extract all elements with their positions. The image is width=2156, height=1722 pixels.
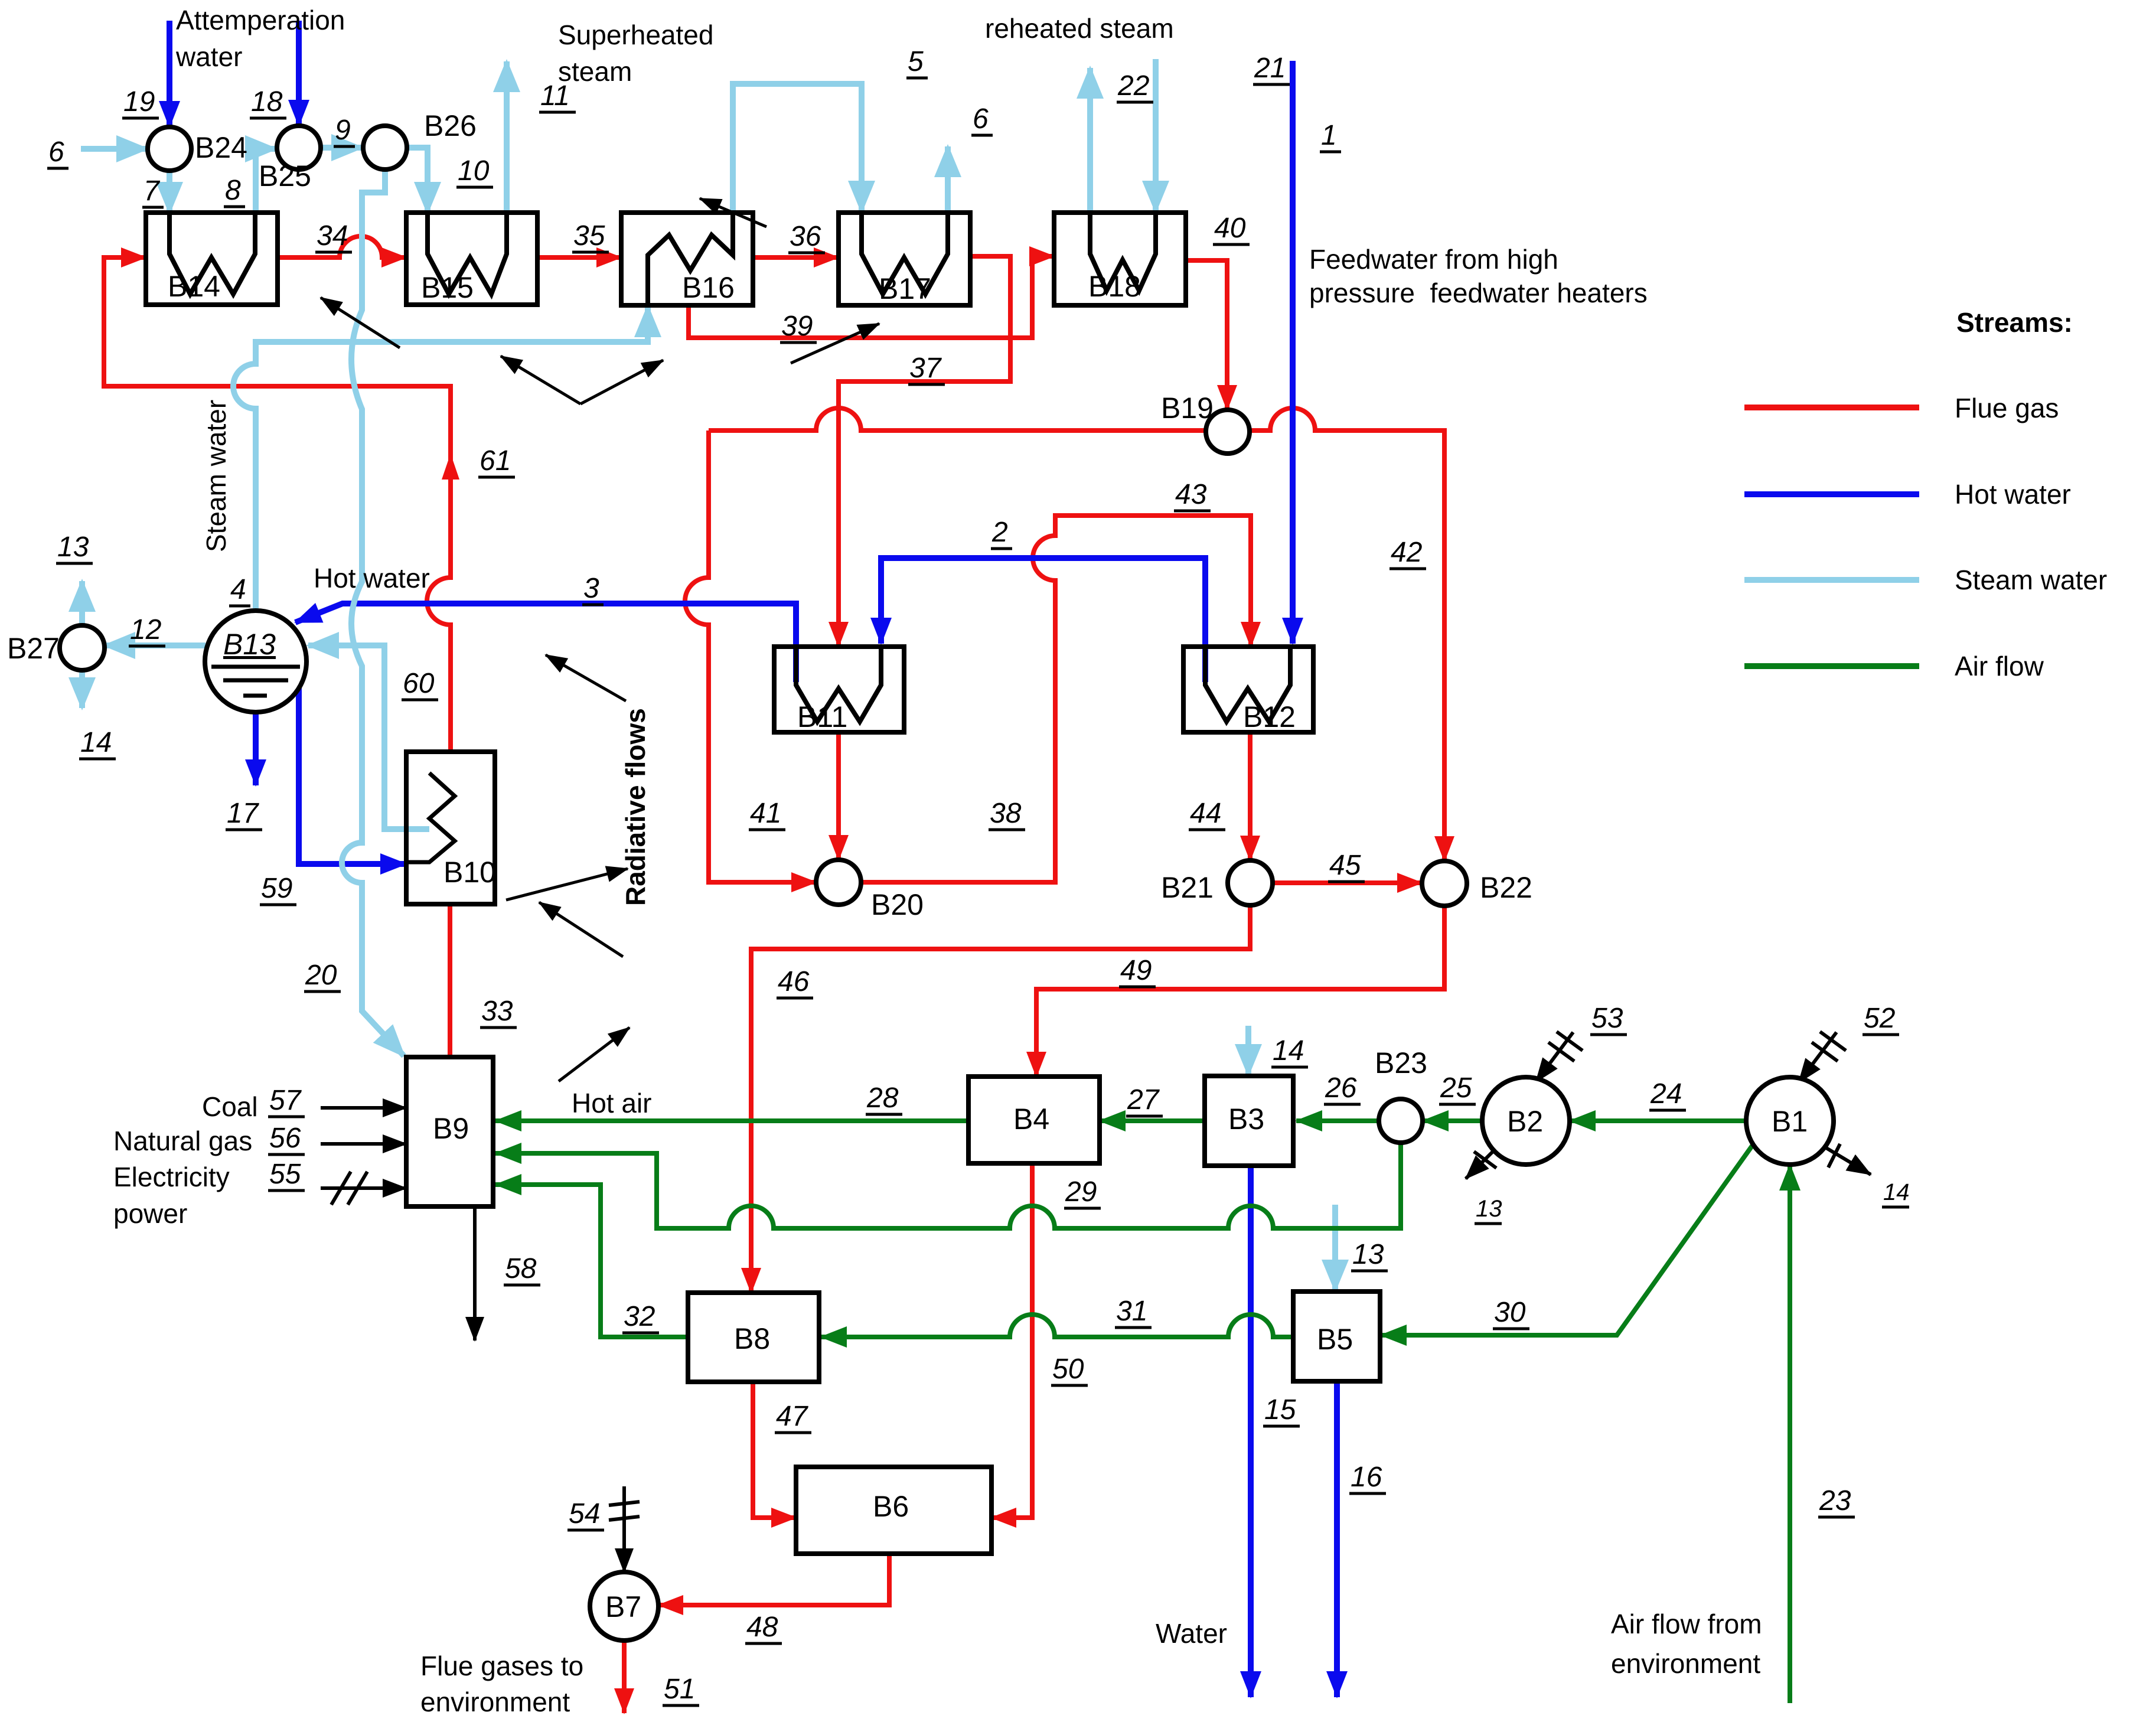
stream 50 B4 to B6 xyxy=(991,1163,1032,1518)
svg-text:6: 6 xyxy=(973,103,989,135)
B16 coil xyxy=(648,215,733,303)
svg-text:26: 26 xyxy=(1325,1072,1357,1104)
svg-text:14: 14 xyxy=(80,727,112,758)
stream 1 feedwater to B12 xyxy=(1290,61,1296,644)
svg-text:2: 2 xyxy=(991,517,1008,548)
stream 55 double slash xyxy=(331,1172,367,1205)
stream 52 tick marks xyxy=(1812,1032,1846,1061)
svg-text:10: 10 xyxy=(458,155,490,187)
heat exchanger B3 xyxy=(1205,1076,1293,1166)
svg-text:13: 13 xyxy=(1476,1196,1502,1222)
svg-text:50: 50 xyxy=(1052,1354,1084,1385)
stream 7 B24 to B14 xyxy=(167,171,172,213)
svg-text:25: 25 xyxy=(1440,1072,1472,1104)
svg-text:36: 36 xyxy=(790,221,821,252)
radiative arrow h xyxy=(700,198,766,227)
stream 54 tick marks xyxy=(609,1502,640,1520)
stream 58 B9 losses out xyxy=(473,1206,477,1341)
stream 31 B5 to B8 xyxy=(821,1315,1293,1337)
wire B19 row xyxy=(709,408,1228,430)
stream 6 B17 steam out xyxy=(945,146,951,213)
svg-text:60: 60 xyxy=(403,668,435,699)
svg-text:B24: B24 xyxy=(195,131,247,164)
svg-text:18: 18 xyxy=(251,86,283,118)
stream 28 B4 to B9 hot air xyxy=(495,1118,968,1123)
stream 43 B20 to B12 xyxy=(861,516,1251,882)
svg-text:40: 40 xyxy=(1214,213,1246,244)
node B23 xyxy=(1379,1099,1423,1143)
svg-text:B12: B12 xyxy=(1243,700,1296,733)
radiative arrow c xyxy=(546,655,626,701)
stream 10 B26 to B15 xyxy=(407,148,428,213)
stream 55 electricity into B9 xyxy=(321,1186,406,1190)
svg-text:Hot air: Hot air xyxy=(572,1088,651,1118)
stream 41 red line down to B20 xyxy=(685,430,816,882)
stream 26 B23 to B3 xyxy=(1296,1118,1379,1123)
legend flue gas line xyxy=(1744,405,1919,410)
svg-text:27: 27 xyxy=(1127,1084,1160,1116)
svg-text:42: 42 xyxy=(1391,537,1422,568)
svg-text:20: 20 xyxy=(305,960,337,991)
stream 38 B11 to B20 xyxy=(836,732,841,860)
svg-text:17: 17 xyxy=(227,798,260,829)
stream 13 B27 steam out up xyxy=(79,581,85,625)
svg-text:B23: B23 xyxy=(1375,1046,1427,1079)
svg-text:57: 57 xyxy=(269,1085,302,1116)
stream 36 B16 to B17 xyxy=(753,255,839,260)
stream 11 B15 superheated steam out xyxy=(504,61,510,213)
svg-text:4: 4 xyxy=(230,574,246,605)
svg-text:Electricity: Electricity xyxy=(113,1162,230,1192)
svg-text:Superheated: Superheated xyxy=(558,19,713,50)
svg-text:44: 44 xyxy=(1190,798,1221,829)
svg-text:B6: B6 xyxy=(873,1490,909,1523)
heat exchanger B5 xyxy=(1293,1291,1380,1381)
svg-text:Coal: Coal xyxy=(202,1091,258,1122)
stream 60 B10 to B13 xyxy=(308,645,429,829)
svg-text:38: 38 xyxy=(990,798,1022,829)
svg-text:32: 32 xyxy=(624,1301,655,1332)
stream 13 tick mark xyxy=(1474,1152,1496,1168)
node B19 xyxy=(1206,410,1250,454)
svg-text:47: 47 xyxy=(776,1401,809,1432)
svg-text:Steam water: Steam water xyxy=(1955,565,2107,595)
svg-text:B13: B13 xyxy=(223,628,276,661)
svg-text:Steam water: Steam water xyxy=(201,400,231,552)
stream 8 B14 to B25 xyxy=(256,149,276,213)
svg-text:21: 21 xyxy=(1254,53,1286,84)
svg-text:34: 34 xyxy=(317,220,348,252)
stream 32 B8 to B9 xyxy=(495,1185,688,1337)
B13 water level lines xyxy=(211,667,300,696)
stream 51 B7 flue gases out xyxy=(622,1641,627,1713)
stream 53 tick marks xyxy=(1548,1032,1583,1061)
stream 42 B19 to B22 xyxy=(1228,408,1444,861)
svg-text:14: 14 xyxy=(1273,1035,1304,1067)
stream 9 B25 to B26 xyxy=(321,145,362,151)
svg-text:environment: environment xyxy=(1611,1648,1760,1679)
svg-text:53: 53 xyxy=(1591,1003,1623,1034)
svg-text:55: 55 xyxy=(269,1159,301,1190)
svg-text:13: 13 xyxy=(57,531,89,563)
svg-text:Hot water: Hot water xyxy=(314,563,430,593)
radiative arrow a xyxy=(321,298,400,348)
svg-text:Feedwater from high: Feedwater from high xyxy=(1309,244,1558,275)
svg-text:B1: B1 xyxy=(1772,1105,1808,1138)
stream 44 B12 to B21 xyxy=(1248,732,1252,860)
stream 14 into B3 xyxy=(1245,1026,1251,1075)
stream 56 natural gas into B9 xyxy=(321,1142,406,1146)
stream 40 B18 to B19 xyxy=(1186,260,1227,410)
svg-text:Flue gas: Flue gas xyxy=(1955,393,2059,423)
B14 coil xyxy=(169,215,255,294)
svg-text:B2: B2 xyxy=(1507,1105,1543,1138)
legend steam water line xyxy=(1744,577,1919,583)
B11 coil xyxy=(796,649,881,722)
stream 47 B8 to B6 xyxy=(753,1382,796,1518)
node B13 drum xyxy=(205,611,306,712)
heat exchanger B16 xyxy=(621,213,753,305)
svg-text:43: 43 xyxy=(1175,479,1207,510)
svg-text:B4: B4 xyxy=(1013,1103,1049,1136)
svg-text:28: 28 xyxy=(866,1082,899,1114)
stream 19 attemperation water to B24 xyxy=(167,21,172,127)
svg-text:Hot water: Hot water xyxy=(1955,479,2071,510)
svg-text:B8: B8 xyxy=(734,1322,770,1355)
stream 49 B22 to B4 xyxy=(1036,906,1444,1077)
legend hot water line xyxy=(1744,491,1919,497)
node B26 xyxy=(363,126,407,169)
svg-text:1: 1 xyxy=(1321,120,1337,151)
svg-text:B11: B11 xyxy=(797,700,847,733)
stream 22 B18 reheated steam out xyxy=(1087,68,1093,213)
svg-text:15: 15 xyxy=(1264,1394,1296,1426)
node B24 xyxy=(148,127,191,171)
stream 35 B15 to B16 xyxy=(537,255,621,260)
svg-text:23: 23 xyxy=(1819,1485,1851,1516)
svg-text:8: 8 xyxy=(225,175,241,206)
stream 14 loss out of B1 xyxy=(1822,1146,1871,1175)
stream 61 direction arrow xyxy=(442,454,459,480)
stream 30 B1 to B5 xyxy=(1381,1145,1753,1335)
stream 25 B2 to B23 xyxy=(1423,1118,1482,1123)
svg-text:Radiative flows: Radiative flows xyxy=(620,708,651,906)
svg-text:49: 49 xyxy=(1120,955,1152,986)
legend air flow line xyxy=(1744,663,1919,669)
stream 34 B14 to B15 xyxy=(278,236,406,257)
node B7 xyxy=(590,1572,658,1641)
node B20 xyxy=(816,860,861,905)
svg-text:B19: B19 xyxy=(1161,392,1214,425)
stream 24 B1 to B2 xyxy=(1570,1118,1746,1123)
B10 coil xyxy=(409,773,455,862)
svg-text:Water: Water xyxy=(1156,1618,1227,1649)
svg-text:B21: B21 xyxy=(1161,871,1214,904)
svg-text:14: 14 xyxy=(1883,1179,1910,1205)
svg-text:Air flow from: Air flow from xyxy=(1611,1609,1762,1639)
svg-text:B7: B7 xyxy=(605,1590,641,1623)
node B1 xyxy=(1746,1077,1834,1165)
svg-text:37: 37 xyxy=(909,353,942,384)
stream 48 B6 to B7 xyxy=(658,1554,889,1605)
svg-text:B22: B22 xyxy=(1480,871,1532,904)
node B27 xyxy=(60,625,105,670)
stream 14 B27 out down xyxy=(79,670,85,708)
stream 37 B17 to B11 xyxy=(839,256,1010,647)
svg-text:46: 46 xyxy=(778,966,810,997)
svg-text:52: 52 xyxy=(1864,1003,1895,1034)
B12 coil xyxy=(1205,649,1290,722)
svg-text:power: power xyxy=(113,1198,187,1229)
stream 5 B16 to B17 xyxy=(733,84,862,213)
heat exchanger B18 xyxy=(1054,213,1186,305)
stream 54 electricity into B7 xyxy=(622,1486,626,1572)
heat exchanger B8 xyxy=(688,1293,819,1382)
node B2 xyxy=(1482,1077,1570,1165)
stream 45 B21 to B22 xyxy=(1273,880,1422,885)
svg-text:13: 13 xyxy=(1352,1239,1384,1270)
stream 33 B10 to B9 xyxy=(448,904,452,1057)
svg-text:5: 5 xyxy=(908,46,924,77)
svg-text:environment: environment xyxy=(420,1687,570,1717)
B17 coil xyxy=(862,215,948,294)
svg-text:steam: steam xyxy=(558,56,632,87)
wire flue gas B10 up to B14 (stream 61 return) xyxy=(104,257,451,752)
stream 13 into B5 xyxy=(1332,1205,1338,1290)
svg-text:45: 45 xyxy=(1329,850,1361,881)
node B21 xyxy=(1228,860,1273,905)
stream 20 B26 to B9 xyxy=(342,170,404,1056)
svg-text:16: 16 xyxy=(1351,1462,1382,1493)
svg-text:B9: B9 xyxy=(433,1112,469,1145)
stream 18 attemperation water to B25 xyxy=(296,21,302,126)
svg-text:Streams:: Streams: xyxy=(1956,307,2073,338)
svg-text:reheated steam: reheated steam xyxy=(985,13,1174,44)
stream 17 B13 blowdown xyxy=(253,712,259,785)
svg-text:B25: B25 xyxy=(259,159,311,193)
svg-text:48: 48 xyxy=(746,1612,778,1643)
stream 13 loss out of B2 xyxy=(1466,1150,1494,1179)
heat exchanger B15 xyxy=(406,213,537,305)
svg-text:9: 9 xyxy=(335,115,351,146)
svg-text:24: 24 xyxy=(1650,1078,1682,1110)
svg-text:31: 31 xyxy=(1116,1296,1147,1327)
heat exchanger B14 xyxy=(146,213,278,305)
heat exchanger B4 xyxy=(968,1077,1100,1163)
svg-text:41: 41 xyxy=(750,798,781,829)
svg-text:29: 29 xyxy=(1065,1176,1097,1208)
heat exchanger B10 xyxy=(406,752,495,904)
svg-text:Natural gas: Natural gas xyxy=(113,1126,252,1156)
B18 coil xyxy=(1090,215,1156,291)
heat exchanger B6 xyxy=(796,1467,991,1554)
svg-text:B17: B17 xyxy=(879,272,931,305)
svg-text:33: 33 xyxy=(481,996,513,1027)
radiative arrow b2 xyxy=(580,360,663,404)
heat exchanger B12 xyxy=(1183,647,1313,732)
heat exchanger B9 xyxy=(406,1057,493,1206)
node B22 xyxy=(1422,861,1467,906)
svg-text:B14: B14 xyxy=(168,270,220,303)
radiative arrow g xyxy=(791,324,879,363)
svg-text:Flue gases to: Flue gases to xyxy=(420,1651,583,1681)
svg-text:22: 22 xyxy=(1117,70,1149,102)
stream 2 B12 to B11 xyxy=(881,558,1205,682)
stream 46 B21 to B8 xyxy=(751,905,1250,1293)
svg-text:58: 58 xyxy=(505,1253,537,1284)
stream 3 B11 to B13 xyxy=(295,604,796,682)
node B25 xyxy=(277,126,321,169)
stream 57 coal into B9 xyxy=(321,1106,406,1110)
stream 29 B23 to B9 xyxy=(495,1143,1401,1228)
svg-text:B3: B3 xyxy=(1228,1103,1264,1136)
stream 16 B5 water out xyxy=(1334,1381,1340,1697)
stream 27 B3 to B4 xyxy=(1100,1118,1205,1123)
stream 14 tick mark xyxy=(1828,1144,1840,1167)
stream 53 power into B2 xyxy=(1536,1032,1573,1082)
svg-text:B15: B15 xyxy=(421,271,474,304)
svg-text:B10: B10 xyxy=(443,856,496,889)
stream 21 reheated steam into B18 xyxy=(1153,59,1159,211)
svg-text:pressure feedwater heaters: pressure feedwater heaters xyxy=(1309,278,1648,308)
stream 39 B16 to B18 xyxy=(689,256,1054,338)
svg-text:Air flow: Air flow xyxy=(1955,651,2044,681)
svg-text:19: 19 xyxy=(123,86,155,118)
heat exchanger B11 xyxy=(774,647,904,732)
B15 coil xyxy=(428,215,507,294)
svg-text:61: 61 xyxy=(480,445,511,477)
svg-text:B27: B27 xyxy=(7,632,60,665)
svg-text:54: 54 xyxy=(569,1498,600,1529)
radiative arrow d xyxy=(506,869,628,900)
svg-text:B26: B26 xyxy=(424,109,477,142)
stream 4 B13 to B16 xyxy=(233,306,648,611)
svg-text:3: 3 xyxy=(583,573,599,604)
stream 15 B3 water out xyxy=(1248,1166,1254,1697)
svg-text:B18: B18 xyxy=(1088,270,1141,303)
stream 59 B13 to B10 xyxy=(299,687,406,864)
svg-text:39: 39 xyxy=(781,311,813,342)
svg-text:12: 12 xyxy=(130,614,161,645)
svg-text:59: 59 xyxy=(261,873,292,904)
svg-text:30: 30 xyxy=(1494,1297,1526,1328)
svg-text:Attemperation: Attemperation xyxy=(176,5,345,35)
svg-text:B20: B20 xyxy=(871,888,924,921)
svg-text:56: 56 xyxy=(269,1123,301,1154)
svg-text:7: 7 xyxy=(143,175,161,207)
stream 12 B13 to B27 xyxy=(105,643,206,648)
svg-text:B5: B5 xyxy=(1317,1323,1353,1356)
svg-text:51: 51 xyxy=(664,1674,695,1705)
heat exchanger B17 xyxy=(839,213,970,305)
svg-text:water: water xyxy=(175,41,242,72)
svg-text:35: 35 xyxy=(573,220,605,252)
stream 23 air from environment to B1 xyxy=(1788,1165,1792,1703)
svg-text:B16: B16 xyxy=(682,271,735,304)
stream 6 steam to B24 xyxy=(81,146,147,152)
radiative arrow b1 xyxy=(501,356,580,404)
svg-text:6: 6 xyxy=(48,136,64,168)
radiative arrow f xyxy=(559,1028,629,1081)
radiative arrow e xyxy=(539,902,623,957)
stream 52 power into B1 xyxy=(1799,1032,1837,1082)
